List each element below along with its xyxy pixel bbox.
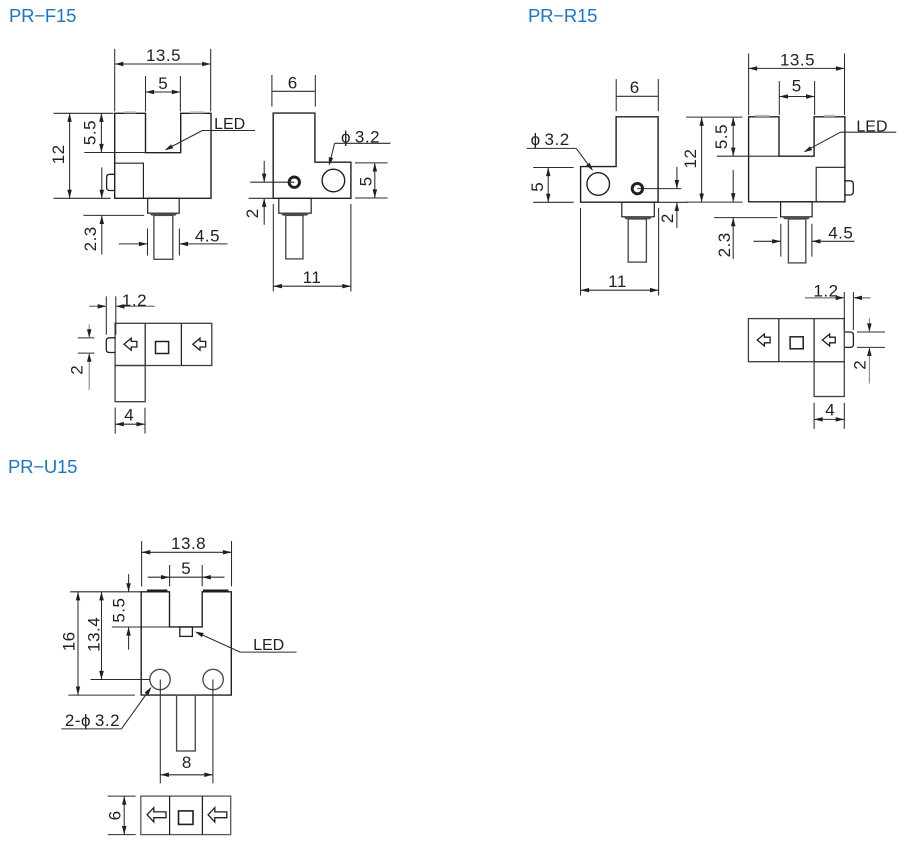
svg-text:PR−R15: PR−R15 xyxy=(528,5,597,26)
PR-R15 front view U-shaped body xyxy=(749,117,845,202)
U15 dimension 13.8 extension lines xyxy=(141,541,143,586)
R15 dimension 12 xyxy=(701,117,703,202)
PR-U15 LED window xyxy=(180,627,193,636)
U15 LED leader line xyxy=(240,651,296,653)
U15 dimension 8 extension lines xyxy=(159,680,161,784)
dimension 12 xyxy=(69,113,71,198)
R15 dimension 2.3 lower arrow xyxy=(732,218,734,259)
PR-R15 side cable xyxy=(628,219,646,262)
PR-R15 bottom view lower block xyxy=(814,362,844,397)
dimension 4 xyxy=(115,423,145,425)
dimension 2.3 lower arrow xyxy=(101,215,103,254)
dimension 6 line xyxy=(272,90,315,92)
U15 dimension 6 xyxy=(123,796,125,835)
U15 dimension 6 tick lines xyxy=(108,795,136,797)
R15 dimension 6 extension lines xyxy=(615,79,617,111)
dimension 2.3 extension line xyxy=(83,214,144,216)
PR-R15 front cable boss xyxy=(781,202,813,217)
svg-text:2.3: 2.3 xyxy=(715,232,734,257)
R15 dimension 2.3 upper arrow xyxy=(732,170,734,202)
svg-text:1.2: 1.2 xyxy=(813,281,838,300)
PR-F15 front view U-shaped body xyxy=(115,113,211,198)
PR-R15 front gray sensor marks on top xyxy=(755,115,769,117)
PR-F15 side view body xyxy=(273,113,351,198)
PR-F15 side cable bushing xyxy=(281,213,309,215)
svg-text:4.5: 4.5 xyxy=(828,224,853,243)
R15 dimension 4.5 segments xyxy=(753,240,780,242)
U15 dimension 5.5 lower arrow xyxy=(128,627,130,650)
dimension 12 extension lines xyxy=(54,112,114,114)
PR-R15 front cable xyxy=(788,219,805,263)
R15 dimension 12 extension lines xyxy=(686,116,742,118)
LED leader line xyxy=(202,130,255,132)
PR-F15 bottom view lower block xyxy=(115,366,145,402)
PR-U15 dark sensor marks on top xyxy=(147,589,167,592)
R15 dimension 11 extension lines xyxy=(580,208,582,296)
R15 dimension 1.2 segments xyxy=(805,297,844,299)
svg-text:5.5: 5.5 xyxy=(109,598,128,623)
PR-F15 front cable xyxy=(154,215,173,259)
PR-U15 bottom view body xyxy=(141,796,231,835)
PR-F15 side small hole (optical axis) xyxy=(289,177,299,187)
svg-text:4: 4 xyxy=(124,406,133,425)
PR-R15 side mounting hole phi3.2 xyxy=(587,173,610,196)
svg-text:2: 2 xyxy=(243,209,262,218)
svg-text:11: 11 xyxy=(608,272,627,291)
svg-text:12: 12 xyxy=(49,144,68,164)
svg-text:2: 2 xyxy=(851,360,870,369)
U15 dimension 5 extension lines xyxy=(169,565,171,586)
R15 dimension 2.3 ext line xyxy=(714,217,777,219)
dimension 4 extension lines xyxy=(114,408,116,434)
svg-text:4.5: 4.5 xyxy=(195,227,220,246)
svg-text:13.8: 13.8 xyxy=(171,534,206,553)
PR-F15 side cable xyxy=(286,215,303,259)
PR-U15 bottom right arrow icon xyxy=(208,808,227,822)
svg-text:1.2: 1.2 xyxy=(122,291,147,310)
R15 dimension 5.5 xyxy=(732,117,734,156)
svg-text:6: 6 xyxy=(288,73,297,92)
dimension 11 xyxy=(273,285,351,287)
dimension 5 extension lines xyxy=(145,76,147,112)
PR-U15 bottom square icon xyxy=(179,811,194,825)
R15 LED leader line xyxy=(841,131,897,133)
PR-R15 bottom left arrow icon xyxy=(757,334,770,346)
U15 dimension 13.8 xyxy=(142,551,232,553)
svg-text:2: 2 xyxy=(67,365,86,374)
dimension 2 left upper arrow xyxy=(263,161,265,182)
PR-R15 side cable bushing xyxy=(624,217,652,219)
svg-text:5: 5 xyxy=(181,559,190,578)
R15 dimension 6 line xyxy=(616,95,658,97)
dimension 2 left lower arrow xyxy=(263,198,265,225)
dimension 6 extension lines xyxy=(271,75,273,107)
PR-R15 front right tab xyxy=(844,181,853,195)
PR-F15 bottom square icon xyxy=(156,342,169,354)
PR-U15 front view U-shaped body xyxy=(141,592,231,695)
PR-R15 bottom right arrow icon xyxy=(822,334,835,346)
PR-F15 side hole center line xyxy=(250,181,294,183)
R15 dimension 4 extension lines xyxy=(813,403,815,429)
R15 dimension 4.5 extension lines xyxy=(780,224,782,257)
R15 dimension 11 xyxy=(581,289,659,291)
dimension 4.5 extension lines xyxy=(147,229,149,256)
svg-text:12: 12 xyxy=(681,149,700,169)
svg-text:5: 5 xyxy=(528,182,547,191)
PR-R15 bottom square icon xyxy=(790,337,803,349)
svg-text:5: 5 xyxy=(158,74,167,93)
dimension 13.5 extension lines xyxy=(114,49,116,112)
R15 dimension 2 tick lines xyxy=(857,331,885,333)
U15 dimension 16 extension lines xyxy=(70,591,141,593)
PR-U15 bottom left arrow icon xyxy=(147,808,166,822)
PR-F15 front gray sensor marks on top xyxy=(124,111,135,113)
svg-text:6: 6 xyxy=(630,78,639,97)
U15 dimension 5.5 upper arrow xyxy=(128,574,130,592)
PR-F15 front left tab xyxy=(107,174,116,190)
dimension 4.5 leader segments xyxy=(119,243,148,245)
U15 dimension 5.5 ext line at slot bottom xyxy=(112,626,170,628)
dimension 2.3 upper arrow xyxy=(101,167,103,198)
U15 dimension 8 xyxy=(160,774,213,776)
PR-F15 bottom view tab xyxy=(106,338,116,353)
U15 dimension 13.4 xyxy=(101,592,103,680)
R15 dimension 5 left xyxy=(547,168,549,203)
PR-U15 cable xyxy=(177,695,196,751)
dimension 11 extension lines xyxy=(272,204,274,292)
U15 2-phi3.2 leader xyxy=(61,728,121,730)
PR-R15 front lower-right step lines xyxy=(816,167,845,202)
dimension 5.5 extension line at slot bottom xyxy=(84,152,145,154)
R15 dimension 1.2 extension lines xyxy=(843,292,845,330)
dimension 13.5 xyxy=(115,63,211,65)
PR-R15 bottom view tab xyxy=(844,332,854,347)
PR-R15 bottom view body xyxy=(748,319,844,362)
svg-text:4: 4 xyxy=(825,401,834,420)
dimension 5 (slot width) xyxy=(146,91,181,93)
dimension 5.5 xyxy=(100,113,102,152)
svg-text:ϕ 3.2: ϕ 3.2 xyxy=(531,130,570,149)
dimension 5 right xyxy=(374,163,376,198)
R15 dimension 13.5 xyxy=(749,67,845,69)
PR-R15 side small hole (optical axis) xyxy=(632,183,642,193)
R15 dimension 4 xyxy=(814,418,844,420)
svg-text:6: 6 xyxy=(106,811,125,820)
svg-text:2.3: 2.3 xyxy=(81,226,100,251)
PR-U15 bottom view dividers xyxy=(169,796,171,835)
dimension 2 bottom ext line xyxy=(249,197,274,199)
PR-F15 front lower-left step lines xyxy=(115,163,144,198)
R15 dimension 2 lower arrow xyxy=(676,202,678,228)
R15 dimension 13.5 extension lines xyxy=(748,54,750,116)
R15 dimension 2 ext line xyxy=(658,201,688,203)
PR-F15 bottom view body xyxy=(115,323,212,365)
svg-text:PR−F15: PR−F15 xyxy=(9,5,76,26)
svg-text:LED: LED xyxy=(253,637,284,654)
dimension 2 arrows xyxy=(88,324,90,338)
R15 dimension 5 extension lines xyxy=(533,167,573,169)
svg-text:8: 8 xyxy=(182,753,191,772)
svg-text:11: 11 xyxy=(303,268,322,287)
svg-text:5.5: 5.5 xyxy=(81,120,100,145)
PR-F15 side cable boss xyxy=(279,198,311,213)
dimension 1.2 segments xyxy=(89,305,106,307)
PR-F15 front cable boss xyxy=(148,198,180,213)
R15 dimension 5.5 ext line at slot bottom xyxy=(717,155,779,157)
PR-F15 front cable bushing xyxy=(150,213,178,215)
R15 dimension 2 arrows xyxy=(868,318,870,332)
PR-F15 bottom view dividers xyxy=(144,323,146,365)
U15 dimension 13.4 ext line at hole center xyxy=(91,679,150,681)
PR-F15 bottom right arrow icon xyxy=(193,338,206,350)
dimension 1.2 extension lines xyxy=(105,296,107,335)
U15 dimension 16 xyxy=(77,592,79,695)
svg-text:5.5: 5.5 xyxy=(712,124,731,149)
R15 dimension 2 upper arrow xyxy=(676,167,678,189)
PR-R15 side cable boss xyxy=(622,202,655,217)
PR-R15 side hole center line xyxy=(637,188,681,190)
svg-text:5: 5 xyxy=(356,177,375,186)
PR-U15 mounting holes 2-phi3.2 xyxy=(150,669,170,689)
R15 dimension 5 extension lines xyxy=(778,81,780,115)
dimension 2 tick lines xyxy=(78,337,95,339)
PR-F15 side mounting hole phi3.2 xyxy=(322,169,345,192)
R15 phi3.2 leader xyxy=(527,147,577,149)
PR-R15 front cable bushing xyxy=(783,217,811,219)
PR-R15 side view body xyxy=(581,117,659,202)
R15 dimension 5 (slot width) xyxy=(779,96,814,98)
PR-R15 bottom view dividers xyxy=(778,319,780,362)
U15 dimension 5 line and arrows xyxy=(148,576,225,578)
svg-text:2: 2 xyxy=(658,214,677,223)
dimension 5 right extension lines xyxy=(355,162,388,164)
svg-text:13.5: 13.5 xyxy=(780,51,815,70)
phi3.2 leader xyxy=(335,142,391,144)
svg-text:2-ϕ 3.2: 2-ϕ 3.2 xyxy=(65,711,120,730)
svg-text:PR−U15: PR−U15 xyxy=(8,456,77,477)
PR-F15 bottom left arrow icon xyxy=(124,338,137,350)
svg-text:13.4: 13.4 xyxy=(84,617,103,652)
svg-text:13.5: 13.5 xyxy=(146,46,181,65)
svg-text:5: 5 xyxy=(792,77,801,96)
svg-text:LED: LED xyxy=(856,119,887,136)
svg-text:16: 16 xyxy=(60,631,79,651)
